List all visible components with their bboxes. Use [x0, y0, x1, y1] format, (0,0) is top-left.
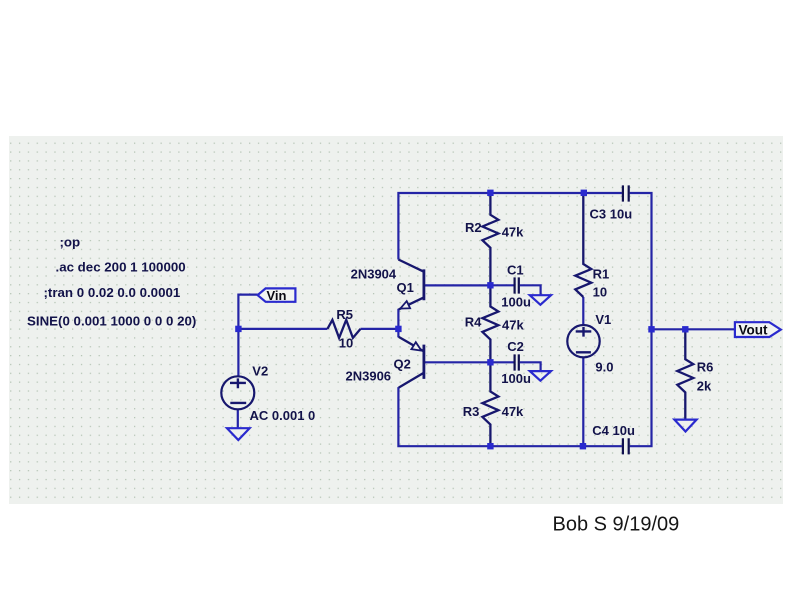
svg-text:;tran 0 0.02 0.0 0.0001: ;tran 0 0.02 0.0 0.0001: [44, 285, 181, 300]
svg-text:Vin: Vin: [267, 288, 287, 303]
svg-text:100u: 100u: [501, 371, 531, 386]
svg-text:;op: ;op: [60, 234, 81, 249]
svg-text:47k: 47k: [502, 224, 524, 239]
svg-text:Bob S 9/19/09: Bob S 9/19/09: [553, 514, 680, 536]
svg-text:47k: 47k: [502, 318, 524, 333]
svg-text:C1: C1: [507, 263, 524, 278]
svg-text:9.0: 9.0: [595, 360, 613, 375]
svg-text:R5: R5: [336, 307, 353, 322]
svg-text:R4: R4: [465, 314, 482, 329]
svg-text:C2: C2: [507, 339, 524, 354]
svg-text:Q2: Q2: [394, 357, 411, 372]
svg-text:100u: 100u: [501, 295, 531, 310]
svg-text:C3 10u: C3 10u: [590, 206, 633, 221]
svg-text:R2: R2: [465, 220, 482, 235]
svg-text:2N3904: 2N3904: [351, 267, 397, 282]
svg-text:Vout: Vout: [739, 322, 768, 337]
svg-text:R1: R1: [593, 267, 610, 282]
svg-text:47k: 47k: [502, 404, 524, 419]
svg-text:2k: 2k: [697, 379, 712, 394]
svg-text:V2: V2: [252, 364, 268, 379]
svg-text:C4 10u: C4 10u: [592, 423, 635, 438]
svg-text:R6: R6: [697, 360, 714, 375]
svg-text:10: 10: [339, 336, 353, 351]
svg-text:10: 10: [593, 285, 607, 300]
svg-text:V1: V1: [595, 312, 611, 327]
svg-text:R3: R3: [463, 404, 480, 419]
svg-text:2N3906: 2N3906: [346, 369, 392, 384]
svg-text:AC 0.001 0: AC 0.001 0: [250, 408, 316, 423]
svg-text:Q1: Q1: [397, 280, 414, 295]
svg-text:SINE(0 0.001 1000 0 0 0 20): SINE(0 0.001 1000 0 0 0 20): [27, 314, 196, 329]
svg-text:.ac dec 200 1 100000: .ac dec 200 1 100000: [56, 260, 186, 275]
